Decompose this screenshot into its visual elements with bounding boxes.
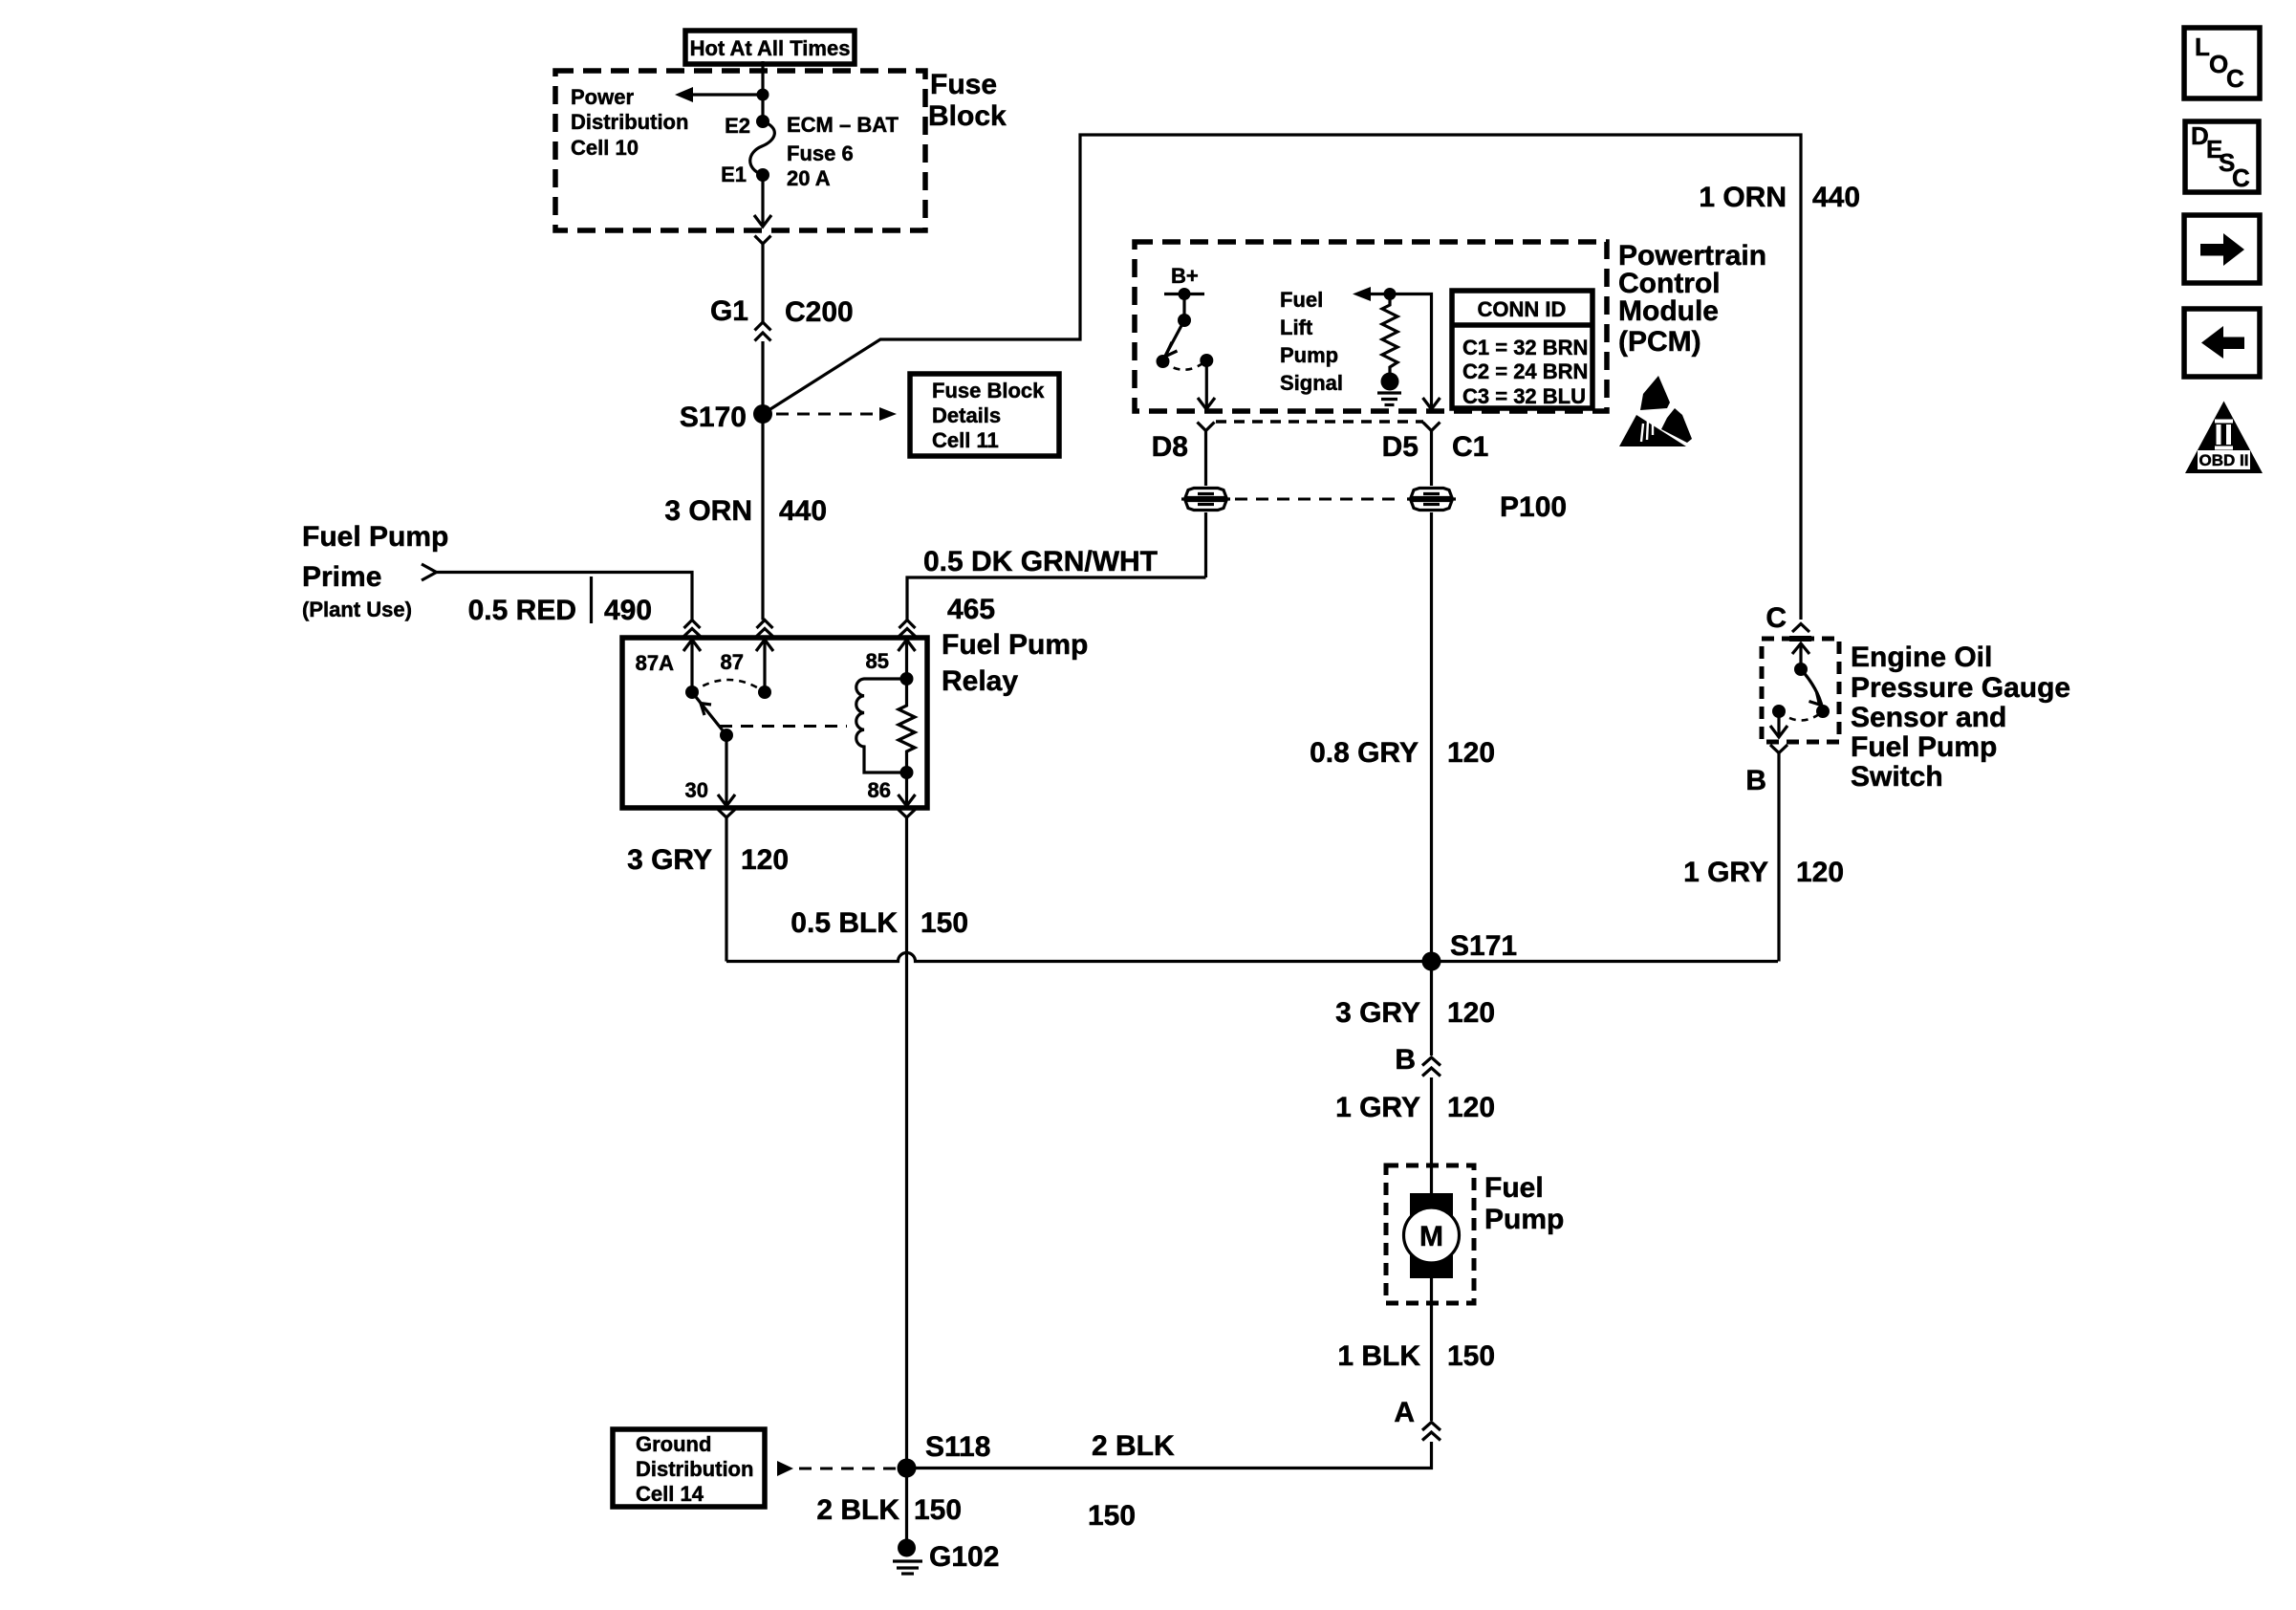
svg-text:30: 30 [685,778,708,802]
svg-text:Fuel Pump: Fuel Pump [942,629,1088,661]
svg-text:Sensor and: Sensor and [1851,702,2006,733]
svg-text:C: C [2232,163,2250,192]
svg-text:Engine Oil: Engine Oil [1851,642,1992,673]
svg-text:B: B [1745,765,1766,796]
svg-text:86: 86 [868,778,891,802]
svg-text:Fuse: Fuse [930,69,997,100]
svg-text:S171: S171 [1450,930,1517,962]
svg-text:(PCM): (PCM) [1618,326,1701,358]
svg-text:Signal: Signal [1280,371,1343,395]
svg-text:D5: D5 [1382,431,1419,463]
svg-text:Pump: Pump [1484,1204,1564,1235]
svg-text:3 GRY: 3 GRY [1335,997,1420,1029]
svg-text:440: 440 [779,495,827,527]
svg-text:87A: 87A [636,651,674,675]
svg-text:E2: E2 [725,114,750,138]
svg-text:G102: G102 [929,1541,999,1573]
svg-text:120: 120 [1447,997,1495,1029]
svg-text:120: 120 [1447,1092,1495,1123]
svg-text:C: C [1765,602,1787,634]
svg-text:S170: S170 [680,402,747,433]
svg-text:Fuel: Fuel [1280,288,1323,312]
svg-text:Prime: Prime [302,561,381,593]
svg-text:0.8 GRY: 0.8 GRY [1310,737,1419,769]
svg-text:Fuel Pump: Fuel Pump [302,521,448,553]
svg-text:150: 150 [921,907,968,939]
svg-text:Distribution: Distribution [571,110,688,134]
svg-text:B: B [1395,1044,1416,1076]
svg-text:M: M [1419,1221,1443,1252]
svg-text:Fuse Block: Fuse Block [932,379,1045,402]
svg-text:1 GRY: 1 GRY [1335,1092,1420,1123]
svg-text:Pressure Gauge: Pressure Gauge [1851,672,2070,704]
svg-text:Block: Block [928,100,1007,132]
svg-text:C: C [2226,64,2244,93]
svg-text:Fuel Pump: Fuel Pump [1851,731,1997,763]
svg-text:D8: D8 [1152,431,1188,463]
svg-text:Ground: Ground [636,1432,711,1456]
svg-text:Fuel: Fuel [1484,1172,1544,1204]
svg-text:3 GRY: 3 GRY [627,844,712,876]
svg-text:1 ORN: 1 ORN [1699,182,1787,213]
svg-text:G1: G1 [710,295,748,327]
svg-text:3 ORN: 3 ORN [664,495,752,527]
svg-text:150: 150 [1447,1340,1495,1372]
svg-text:Details: Details [932,403,1001,427]
svg-text:120: 120 [1447,737,1495,769]
svg-text:Cell 11: Cell 11 [932,428,999,452]
svg-text:E1: E1 [721,163,747,186]
svg-text:150: 150 [1088,1500,1136,1532]
svg-text:440: 440 [1812,182,1860,213]
svg-text:2 BLK: 2 BLK [1092,1430,1175,1462]
svg-text:P100: P100 [1500,491,1567,523]
svg-text:(Plant Use): (Plant Use) [302,598,412,621]
svg-text:Relay: Relay [942,665,1018,697]
svg-text:Cell 14: Cell 14 [636,1482,704,1506]
svg-text:0.5 DK GRN/WHT: 0.5 DK GRN/WHT [923,546,1158,577]
svg-text:Hot At All Times: Hot At All Times [690,36,851,60]
svg-text:Switch: Switch [1851,761,1943,793]
svg-text:OBD II: OBD II [2199,451,2249,469]
svg-text:Cell 10: Cell 10 [571,136,639,160]
svg-text:C1 = 32 BRN: C1 = 32 BRN [1462,336,1588,359]
svg-text:ECM – BAT: ECM – BAT [787,113,899,137]
svg-text:S118: S118 [925,1431,990,1463]
svg-text:Module: Module [1618,295,1719,327]
svg-text:A: A [1394,1397,1415,1428]
svg-text:1 BLK: 1 BLK [1337,1340,1420,1372]
svg-text:C3 = 32 BLU: C3 = 32 BLU [1462,384,1586,408]
svg-text:CONN ID: CONN ID [1478,297,1567,321]
svg-text:C200: C200 [785,296,854,328]
svg-text:465: 465 [947,594,995,625]
svg-text:0.5 BLK: 0.5 BLK [791,907,898,939]
svg-text:120: 120 [741,844,789,876]
svg-text:Distribution: Distribution [636,1457,753,1481]
svg-text:C1: C1 [1452,431,1488,463]
svg-text:87: 87 [721,650,744,674]
svg-text:490: 490 [604,595,652,626]
svg-text:Power: Power [571,85,634,109]
svg-text:150: 150 [914,1494,962,1526]
svg-text:85: 85 [866,649,889,673]
svg-text:Fuse 6: Fuse 6 [787,141,854,165]
svg-text:1 GRY: 1 GRY [1683,857,1768,888]
svg-text:20 A: 20 A [787,166,831,190]
svg-text:120: 120 [1796,857,1844,888]
svg-text:Lift: Lift [1280,315,1313,339]
svg-text:2 BLK: 2 BLK [816,1494,899,1526]
svg-text:0.5 RED: 0.5 RED [468,595,576,626]
svg-text:L: L [2195,33,2210,61]
svg-text:B+: B+ [1171,264,1199,288]
svg-text:C2 = 24 BRN: C2 = 24 BRN [1462,359,1588,383]
svg-text:Pump: Pump [1280,343,1338,367]
